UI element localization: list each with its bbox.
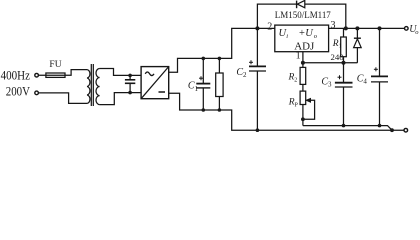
svg-text:LM150/LM117: LM150/LM117 [275, 10, 331, 21]
svg-text:o: o [415, 29, 419, 36]
diode D1 on top rail [297, 0, 305, 8]
node bottom rail merge [390, 128, 394, 132]
capacitor C1 [196, 57, 210, 112]
svg-text:1: 1 [195, 85, 199, 93]
svg-text:1: 1 [339, 44, 342, 50]
svg-text:4: 4 [363, 78, 367, 86]
resistor R2 [300, 63, 306, 91]
wire top protection rail [257, 4, 345, 28]
wire secondary top to rectifier input top [100, 69, 142, 76]
resistor R bleeder [216, 57, 223, 112]
svg-text:3: 3 [328, 81, 332, 89]
node 200V input terminal [35, 91, 39, 95]
node Uo output terminal [405, 27, 409, 31]
wire rectifier plus output to input rail [169, 28, 275, 72]
svg-text:i: i [286, 33, 288, 40]
capacitor input filter [125, 74, 135, 95]
svg-text:200V: 200V [6, 84, 30, 98]
wire secondary bottom to rectifier input bottom [100, 93, 142, 105]
fuse FU [46, 73, 65, 77]
wire 200V terminal to transformer primary bottom [39, 93, 88, 104]
node bottom output terminal [404, 128, 408, 132]
capacitor C4 [371, 26, 388, 127]
svg-text:240: 240 [330, 52, 344, 62]
resistor R1 240 [341, 26, 348, 62]
wire ADJ side ground rail [303, 126, 392, 131]
rectifier UR box [141, 67, 169, 99]
svg-text:P: P [295, 102, 299, 108]
node input junction at pin 2 [255, 26, 259, 30]
diode D2 across R1 [354, 26, 362, 62]
transformer T primary winding [87, 70, 90, 104]
capacitor C2 [249, 28, 266, 132]
svg-text:FU: FU [49, 60, 61, 70]
svg-text:400Hz: 400Hz [1, 69, 31, 83]
svg-text:ADJ: ADJ [294, 42, 314, 53]
wire rectifier minus output down to bottom rail [169, 93, 404, 130]
wire ADJ pin 1 node [301, 52, 358, 65]
svg-text:+: + [299, 28, 305, 39]
transformer T secondary winding [96, 69, 100, 105]
transformer T core [91, 64, 93, 106]
node 400Hz input terminal [35, 73, 39, 77]
svg-text:3: 3 [331, 20, 336, 31]
svg-text:2: 2 [243, 71, 247, 79]
potentiometer RP [300, 91, 315, 126]
wire output pin 3 to Uo terminal [329, 27, 405, 29]
svg-text:2: 2 [294, 77, 297, 83]
wire 400Hz terminal to fuse to transformer primary top [39, 70, 88, 76]
op-amp U1 regulator LM150/LM117 box [275, 25, 329, 52]
capacitor C3 [335, 63, 353, 128]
svg-text:2: 2 [267, 21, 272, 32]
